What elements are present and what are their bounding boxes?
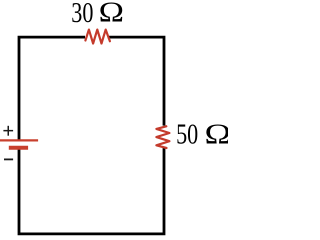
label: battery plus sign — [3, 126, 13, 136]
wire: right side top segment from R2 up, top-right corner, to resistor R1 — [108, 37, 164, 126]
battery V1 negative short plate — [9, 146, 28, 150]
label: battery minus sign — [4, 158, 13, 160]
svg-text:Ω: Ω — [205, 118, 229, 149]
svg-text:30: 30 — [71, 0, 93, 29]
label: ohm symbol for R1 — [99, 0, 124, 28]
battery V1 positive long plate — [0, 139, 38, 141]
label: 30 digits — [71, 0, 93, 29]
resistor R1 30 ohm (zigzag, top) — [85, 30, 110, 44]
resistor R2 50 ohm (zigzag, right) — [156, 126, 169, 148]
svg-text:50: 50 — [176, 120, 198, 150]
label: 50 digits — [176, 120, 198, 150]
wire: from battery - plate down, bottom side, up right side to resistor R2 — [19, 148, 164, 234]
svg-text:Ω: Ω — [99, 0, 124, 28]
label: ohm symbol for R2 — [205, 118, 232, 149]
wire: top-left corner, left side down to battery + plate — [19, 37, 85, 140]
